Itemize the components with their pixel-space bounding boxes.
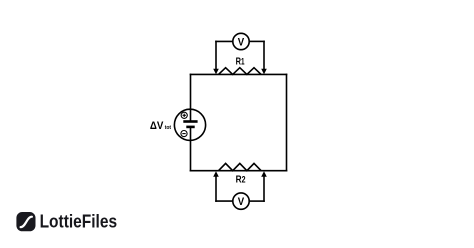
svg-text:R2: R2 — [236, 175, 246, 186]
wire right side of loop — [286, 74, 288, 172]
battery wire stub inside top — [190, 109, 192, 121]
LottieFiles logo curve — [21, 217, 32, 227]
battery minus terminal mark — [181, 131, 187, 137]
arrowhead V1 right (down onto top wire) — [261, 69, 267, 75]
battery circle — [174, 109, 205, 140]
svg-text:LottieFiles: LottieFiles — [40, 210, 118, 231]
battery plus terminal mark — [181, 112, 187, 118]
wire left side upper (top corner to battery top plate) — [190, 74, 192, 122]
wire voltmeter V1 left vertical — [215, 41, 217, 70]
voltmeter V1 circle — [233, 33, 249, 49]
voltmeter V2 circle — [233, 193, 249, 209]
svg-text:ΔV: ΔV — [150, 120, 164, 132]
wire left side lower (battery bottom plate to bottom corner) — [190, 127, 192, 172]
wire voltmeter V2 horizontal right stub — [249, 200, 265, 202]
arrowhead V2 right (up onto bottom wire) — [261, 171, 267, 177]
battery short plate — [186, 126, 194, 129]
battery long plate — [183, 120, 197, 123]
battery wire stub inside bottom — [190, 127, 192, 140]
svg-text:tot: tot — [165, 125, 171, 131]
LottieFiles logo icon (rounded square) — [16, 212, 35, 231]
wire voltmeter V1 horizontal right stub — [249, 40, 265, 42]
arrowhead V1 left (down onto top wire) — [213, 69, 219, 75]
arrowhead V2 left (up onto bottom wire) — [213, 171, 219, 177]
resistor R1 — [219, 68, 262, 75]
wire bottom side of loop — [190, 170, 288, 172]
resistor R2 — [219, 163, 262, 170]
wire voltmeter V2 horizontal left stub — [215, 200, 233, 202]
wire voltmeter V1 right vertical — [263, 41, 265, 70]
svg-text:V: V — [238, 196, 245, 208]
svg-text:V: V — [238, 36, 245, 48]
wire voltmeter V2 left vertical — [215, 176, 217, 202]
wire voltmeter V1 horizontal left stub — [215, 40, 233, 42]
svg-text:R1: R1 — [236, 57, 245, 68]
wire voltmeter V2 right vertical — [263, 176, 265, 202]
wire top side of loop — [190, 73, 288, 75]
